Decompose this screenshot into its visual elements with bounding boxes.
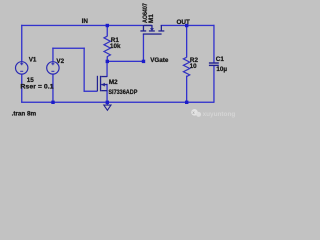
svg-text:VGate: VGate	[150, 57, 169, 64]
junction V2 bottom rail	[51, 101, 54, 104]
resistor R1	[104, 36, 110, 56]
svg-text:M1: M1	[148, 14, 155, 23]
svg-text:C1: C1	[216, 56, 225, 63]
svg-text:10µ: 10µ	[216, 66, 227, 73]
junction IN/R1 top	[106, 24, 109, 27]
watermark logo	[191, 109, 201, 117]
wire R1 bottom lead	[107, 56, 108, 61]
junction M2 source / ground	[106, 101, 109, 104]
wire R1 top lead	[107, 25, 108, 37]
svg-text:M2: M2	[109, 79, 118, 86]
svg-text:V1: V1	[29, 57, 37, 64]
svg-text:OUT: OUT	[177, 19, 190, 26]
junction VGate	[142, 60, 145, 63]
transistor M1 (PMOS, rotated)	[140, 25, 164, 35]
wire V1 top column	[21, 25, 22, 62]
junction R1 bottom / M2 drain	[106, 60, 109, 63]
voltage source V1	[16, 62, 28, 74]
wire M2 gate lead	[84, 91, 98, 92]
wire C1 top lead	[213, 25, 214, 63]
svg-text:Rser = 0.1: Rser = 0.1	[20, 84, 54, 91]
svg-text:10: 10	[190, 63, 198, 70]
wire R2 bottom lead	[186, 76, 187, 103]
capacitor C1	[209, 62, 219, 66]
wire bottom rail	[21, 102, 214, 103]
wire M1 gate lead	[143, 34, 144, 62]
wire gate drop vertical	[84, 48, 85, 92]
wire M2 drain	[106, 61, 107, 77]
resistor R2	[183, 57, 189, 76]
voltage source V2	[47, 62, 59, 74]
junction OUT/R2 top	[185, 24, 188, 27]
junction R2 bottom rail	[185, 101, 188, 104]
transistor M2 (NMOS Si7336ADP)	[97, 76, 107, 92]
svg-text:V2: V2	[56, 58, 64, 65]
svg-text:10k: 10k	[110, 43, 121, 50]
wire V2 horizontal to gate drop	[52, 48, 85, 49]
wire V1 bottom column	[21, 74, 22, 103]
wire top rail right (OUT rail)	[161, 25, 215, 26]
wire M2 bulk-source	[106, 84, 107, 103]
wire VGate horizontal	[107, 61, 144, 62]
ground	[104, 105, 111, 110]
wire V2 top column	[52, 48, 53, 62]
wire top rail left (IN rail)	[21, 25, 152, 26]
svg-text:IN: IN	[82, 18, 89, 25]
wire V2 bottom column	[52, 74, 53, 102]
svg-text:xuyuntong: xuyuntong	[203, 111, 236, 118]
wire R2 top lead	[186, 25, 187, 58]
svg-text:.tran 8m: .tran 8m	[12, 111, 37, 118]
wire ground stub	[107, 102, 108, 106]
svg-text:Si7336ADP: Si7336ADP	[108, 89, 137, 96]
wire C1 bottom lead	[213, 66, 214, 103]
